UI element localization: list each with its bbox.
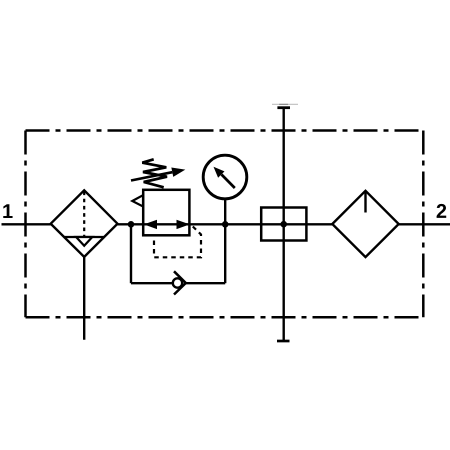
branching module block: [261, 208, 306, 241]
branch top thin cap: [272, 103, 298, 105]
pressure regulator R1 body: [143, 190, 189, 236]
regulator flow arrows: [144, 220, 190, 229]
pressure gauge G1: [203, 155, 247, 199]
node A (regulator inlet junction): [128, 221, 135, 228]
regulator adjustment spring: [142, 159, 167, 187]
wire: bypass branch bottom left: [131, 282, 174, 284]
wire: outlet line port 2: [399, 223, 450, 225]
wire: condensate drain line: [83, 257, 85, 340]
regulator adjustment arrow: [131, 168, 185, 181]
check valve V1: [173, 271, 186, 294]
node B (gauge junction): [222, 221, 229, 228]
lubricator L1: [332, 191, 398, 257]
wire: bypass branch bottom right: [186, 282, 225, 284]
wire: gauge stem: [224, 199, 226, 224]
branch bottom port cap: [277, 340, 290, 343]
wire: main flow line between filter and lubricator: [118, 223, 333, 225]
wire: bypass branch left leg: [130, 224, 132, 283]
regulator relief vent triangle: [132, 195, 143, 206]
port 2 label: [437, 204, 447, 218]
node C (branch centre): [280, 221, 287, 228]
branch top port cap: [277, 106, 290, 109]
wire: bypass branch right leg: [224, 224, 226, 283]
filter with water separator F1: [51, 190, 118, 257]
port 1 label: [3, 204, 12, 218]
enclosure border (dash-dot frame): [26, 131, 424, 318]
dashed pilot feedback line: [154, 227, 201, 258]
wire: vertical branch line: [283, 109, 285, 341]
wire: inlet line port 1: [2, 223, 51, 225]
